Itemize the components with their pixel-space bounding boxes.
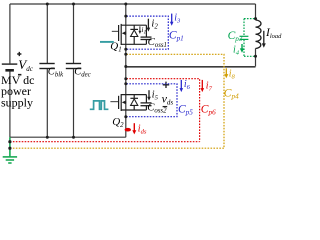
svg-text:supply: supply xyxy=(1,96,33,110)
